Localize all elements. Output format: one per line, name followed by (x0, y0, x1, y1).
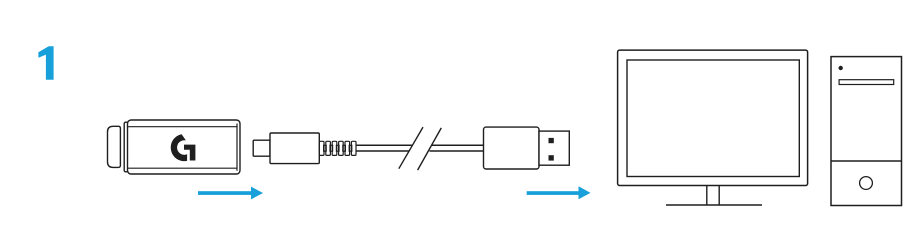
strain relief ribs (319, 141, 356, 155)
receiver body bottom inner edge (128, 167, 237, 169)
usb-a plug hole 2 (549, 155, 554, 160)
cable break slash 1 (399, 127, 423, 169)
monitor stand right leg (718, 186, 720, 205)
monitor screen (627, 60, 799, 177)
tower case (831, 57, 902, 206)
usb-c connector body (270, 133, 319, 164)
usb-a connector body (484, 127, 540, 169)
cable right segment (430, 145, 485, 151)
receiver cap (USB plug side view) (108, 126, 121, 167)
tower drive slot (839, 80, 894, 85)
usb-c plug tip (253, 140, 270, 156)
tower power button (860, 177, 873, 190)
cable left segment (356, 145, 412, 151)
receiver body right inner edge (236, 124, 238, 171)
receiver body top inner edge (128, 126, 237, 128)
arrow 1 (under receiver) (198, 187, 263, 200)
usb-a plug hole 1 (549, 138, 554, 143)
tower power led dot (839, 66, 843, 70)
tower divider line (831, 160, 902, 162)
strain relief waists (324, 145, 352, 151)
receiver body outline (128, 120, 241, 174)
cable break slash 2 (418, 128, 442, 170)
step number 1 (38, 46, 53, 80)
monitor stand left leg (706, 186, 708, 205)
monitor outer frame (618, 50, 808, 185)
receiver collar (124, 122, 128, 172)
G logo flag (184, 145, 195, 161)
arrow 2 (before computer) (527, 186, 591, 199)
usb-a metal plug (539, 131, 569, 165)
monitor base (666, 204, 762, 206)
G logo ring (171, 134, 187, 161)
